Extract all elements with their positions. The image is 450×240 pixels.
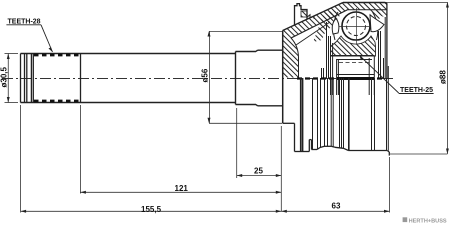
spline bore dark dashes: [297, 77, 384, 79]
svg-text:HERTH+BUSS: HERTH+BUSS: [409, 218, 447, 224]
bottom profile: [283, 123, 390, 155]
top outer band (housing wall, hatched): [343, 3, 387, 79]
joint back face: [282, 31, 284, 124]
race bottom / bore lines: [330, 56, 375, 75]
ball B1: [338, 8, 374, 44]
boot clamp: [295, 4, 331, 45]
dim 63: [281, 157, 389, 213]
dim 25: [237, 108, 282, 212]
inner race hatch: [331, 36, 376, 56]
svg-text:63: 63: [332, 202, 341, 211]
svg-text:ø56: ø56: [201, 68, 210, 82]
svg-text:ø88: ø88: [439, 70, 448, 84]
cage lens left: [332, 19, 339, 35]
svg-text:121: 121: [175, 184, 189, 193]
label TEETH-25: [360, 56, 434, 94]
dim 155.5: [21, 105, 282, 214]
interior verticals: [322, 17, 386, 95]
back wall hatch: [283, 31, 299, 78]
svg-text:155,5: 155,5: [141, 205, 162, 214]
race shoulder arcs: [333, 12, 338, 40]
svg-text:25: 25: [254, 167, 263, 176]
bellows ribs: [301, 66, 389, 152]
cone band (boot cone, hatched): [283, 3, 348, 39]
centerline: [2, 78, 394, 80]
dim d88: [386, 2, 449, 154]
cage lens right: [370, 15, 384, 32]
logo: [403, 217, 447, 224]
spline section S1: [21, 54, 236, 103]
dim d30.5: [0, 54, 18, 103]
dim 121: [80, 105, 281, 194]
shaft tip: [21, 54, 34, 103]
step cylinder C2 (25mm): [236, 50, 283, 106]
left shoulder hatch: [313, 11, 334, 43]
label TEETH-28: [6, 19, 52, 53]
svg-text:ø30,5: ø30,5: [0, 66, 9, 87]
dim d56: [201, 31, 283, 123]
right shoulder hatch: [375, 10, 387, 18]
svg-text:TEETH-25: TEETH-25: [400, 87, 433, 94]
right flank hatch: [368, 10, 381, 19]
left flank hatch: [327, 11, 343, 31]
